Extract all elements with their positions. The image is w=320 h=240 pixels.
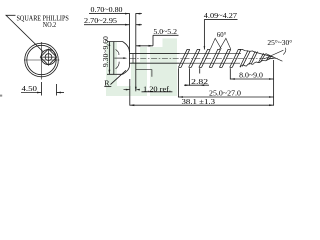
ext line thread start xyxy=(177,68,179,97)
head bearing face xyxy=(129,53,131,66)
arrow 9.30 bottom xyxy=(109,70,111,75)
arrow 5.0 left xyxy=(136,45,141,47)
dim 8.0-9.0 xyxy=(229,68,231,79)
arrow B bottom xyxy=(135,87,137,92)
R underline xyxy=(104,86,111,88)
shank bottom line xyxy=(130,62,180,64)
leader SQUARE PHILLIPS xyxy=(6,15,43,52)
arrow dim2 right at B xyxy=(136,24,141,26)
arrow 4.50 left xyxy=(37,92,42,94)
1.20 ref underline xyxy=(142,91,173,93)
arrow 8.0 right xyxy=(269,78,274,80)
ext line head bearing xyxy=(129,79,131,106)
arrow dim1 right at B xyxy=(136,13,141,15)
tip angle line 1 xyxy=(266,54,282,62)
60 degree marks xyxy=(210,38,221,49)
svg-text:4.50: 4.50 xyxy=(22,84,38,93)
svg-text:60°: 60° xyxy=(217,30,226,39)
svg-text:2.82: 2.82 xyxy=(191,77,208,86)
dim 2.70-2.95 line xyxy=(84,24,142,26)
dim 9.30-9.60 line xyxy=(108,42,110,75)
dim 2.82 xyxy=(189,68,191,86)
shank top line xyxy=(130,53,180,55)
arrow 38.1 right xyxy=(269,104,274,106)
recess depth arrow xyxy=(115,57,125,59)
arrow 9.30 top xyxy=(109,42,111,47)
1.20 dim arrows xyxy=(124,89,130,91)
head front view outer circle xyxy=(25,43,59,77)
head dome arc bottom xyxy=(123,66,130,75)
watermark logo xyxy=(106,38,177,96)
jog 1.20 xyxy=(136,70,152,77)
border edge mark xyxy=(0,95,2,97)
dim 5.0-5.2 xyxy=(153,34,179,36)
arrow dim1 left at A xyxy=(125,13,130,15)
tip angle line 2 xyxy=(264,50,283,59)
center line vertical xyxy=(41,42,43,80)
dim 4.50 line xyxy=(21,92,42,94)
recess circle inner xyxy=(45,54,52,61)
svg-text:2.70~2.95: 2.70~2.95 xyxy=(84,16,117,25)
arrow 38.1 left xyxy=(130,104,135,106)
dim 0.70-0.80 line xyxy=(89,13,142,15)
taper top line xyxy=(240,49,274,57)
head side view outline xyxy=(114,42,123,75)
svg-text:9.30~9.60: 9.30~9.60 xyxy=(101,36,110,67)
ext line tip xyxy=(273,60,275,106)
ext line B xyxy=(135,13,137,91)
arrow recess depth xyxy=(123,57,127,59)
svg-text:NO.2: NO.2 xyxy=(43,20,56,29)
svg-text:5.0~5.2: 5.0~5.2 xyxy=(153,27,177,36)
axis centerline xyxy=(130,58,279,60)
25-30 leader hook xyxy=(283,48,286,55)
arrow dim2 left at A xyxy=(125,24,130,26)
svg-text:38.1 ±1.3: 38.1 ±1.3 xyxy=(182,97,216,106)
svg-text:4.09~4.27: 4.09~4.27 xyxy=(204,11,237,20)
taper thread lenses xyxy=(249,51,258,65)
arrow 25.0 right xyxy=(269,96,274,98)
arrowheads xyxy=(37,13,274,106)
arrow 1.20 right xyxy=(136,89,140,91)
thread lenses xyxy=(178,49,271,67)
arrow 5.0 right xyxy=(149,45,154,47)
recess cross vertical xyxy=(48,49,50,65)
recess cross horizontal xyxy=(40,56,56,58)
arrow 2.82 left xyxy=(185,84,190,86)
center line horizontal xyxy=(24,59,60,61)
svg-text:R: R xyxy=(104,79,110,88)
head dome arc top xyxy=(123,42,130,53)
svg-text:25°~30°: 25°~30° xyxy=(267,38,292,47)
recess circle outer xyxy=(41,50,56,65)
leader R xyxy=(111,70,127,84)
4.09-4.27 underline + leader xyxy=(204,18,237,20)
svg-text:8.0~9.0: 8.0~9.0 xyxy=(239,71,263,80)
washer step vertical xyxy=(132,54,134,63)
arrow 8.0 left xyxy=(230,78,235,80)
dim 4.50 extension lines xyxy=(41,82,43,96)
head front view inner circle xyxy=(27,45,56,74)
dim 25.0-27.0 line xyxy=(178,96,273,98)
svg-text:25.0~27.0: 25.0~27.0 xyxy=(209,88,241,97)
dim 38.1 line xyxy=(130,104,274,106)
arrow 1.20 left xyxy=(126,89,130,91)
taper bottom line xyxy=(240,58,274,67)
svg-text:1.20 ref.: 1.20 ref. xyxy=(143,84,171,93)
arrow 4.50 right xyxy=(57,92,62,94)
svg-text:0.70~0.80: 0.70~0.80 xyxy=(91,5,123,14)
root lines through threads xyxy=(180,54,242,64)
arrow 4.09 leader xyxy=(204,46,206,50)
arrow 2.82 right xyxy=(200,84,205,86)
arrow 25.0 left xyxy=(178,96,183,98)
recess square diamond xyxy=(40,49,56,65)
ext line A xyxy=(129,13,131,52)
recess profile in side view xyxy=(116,50,119,56)
